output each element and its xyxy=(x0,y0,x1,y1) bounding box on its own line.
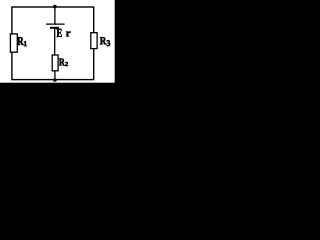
battery E (short thick plate) xyxy=(50,27,59,29)
label R2 - R xyxy=(59,59,65,66)
resistor R3 body xyxy=(91,33,97,49)
battery E (long plate) xyxy=(46,23,65,25)
node A (top junction dot) xyxy=(53,5,57,9)
resistor R2 body xyxy=(52,55,58,71)
black background xyxy=(0,0,120,126)
white page area xyxy=(0,0,115,83)
wire (top dot to battery) xyxy=(54,7,56,24)
circuit outer loop wire xyxy=(12,7,94,80)
node B (bottom junction dot) xyxy=(53,78,57,82)
wire (R2 to bottom dot) xyxy=(54,71,56,80)
label r xyxy=(66,31,70,36)
label R2 - subscript 2 xyxy=(65,62,68,66)
label E xyxy=(57,29,62,37)
label R1 - subscript 1 xyxy=(24,41,27,46)
label R3 - subscript 3 xyxy=(107,40,111,46)
wire (battery to R2) xyxy=(54,28,56,55)
resistor R1 body xyxy=(10,34,17,52)
label R1 - R xyxy=(17,37,24,45)
label R3 - R xyxy=(100,37,106,44)
